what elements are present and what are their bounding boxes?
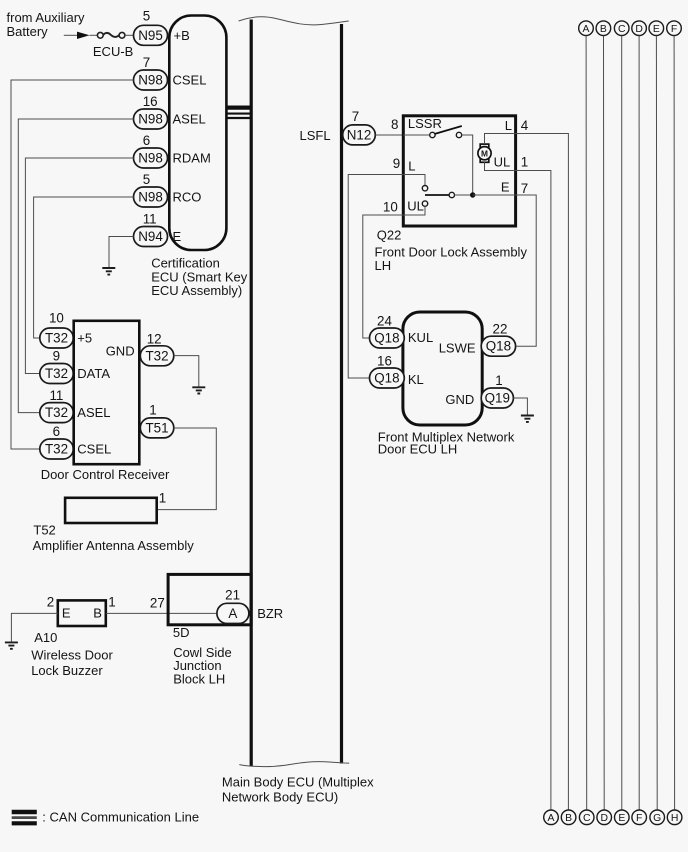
node A (top) — [579, 21, 594, 36]
svg-text:E: E — [501, 180, 510, 195]
connector N12 — [343, 125, 376, 145]
svg-text:A: A — [228, 606, 237, 621]
svg-text:N12: N12 — [347, 127, 372, 142]
svg-text:Battery: Battery — [7, 24, 49, 39]
svg-text:C: C — [583, 813, 591, 824]
wire: motor top to L pin 4 — [485, 134, 516, 145]
svg-text:BZR: BZR — [257, 606, 283, 621]
svg-text:B: B — [565, 813, 572, 824]
wire: Q22 E pin 7 to Q18 LSWE — [516, 195, 537, 346]
svg-text:GND: GND — [106, 343, 135, 358]
svg-text:11: 11 — [143, 212, 157, 227]
svg-text:F: F — [636, 813, 642, 824]
svg-text:11: 11 — [49, 388, 63, 403]
wire: top A to bottom C — [585, 36, 588, 810]
connector Q19 — [481, 388, 513, 408]
wire: motor bottom to UL pin 1 — [485, 162, 516, 170]
svg-text:B: B — [93, 606, 102, 621]
wire: N94 E to ground — [109, 237, 134, 268]
svg-text:RDAM: RDAM — [173, 151, 211, 166]
wire: L pin 9 feed inside Q22 — [403, 175, 425, 186]
label: 5D Cowl Side Junction Block LH — [173, 625, 232, 686]
wire: Q22 pin 9 L to Q18 KL — [348, 175, 403, 379]
svg-text:D: D — [635, 24, 643, 35]
wire: N98 ASEL to T32 ASEL — [18, 119, 133, 413]
svg-text:1: 1 — [149, 403, 156, 418]
svg-text:E: E — [62, 606, 71, 621]
svg-text:12: 12 — [147, 332, 162, 347]
node E (top) — [649, 21, 664, 36]
CAN communication line stub (Certification ECU to Main Body ECU) — [226, 108, 251, 118]
legend symbol: CAN communication line — [12, 812, 37, 823]
svg-text:LSSR: LSSR — [408, 116, 442, 131]
svg-text:T32: T32 — [145, 348, 168, 363]
svg-text:T32: T32 — [45, 366, 68, 381]
connector Q18 (KL) — [370, 368, 405, 388]
ECU: Door Control Receiver body — [74, 321, 140, 464]
svg-text:GND: GND — [445, 392, 474, 407]
switch contact (L fixed) — [422, 186, 427, 191]
node B (top) — [596, 21, 611, 36]
switch blade (lock/unlock common) — [425, 194, 449, 196]
svg-text:LSFL: LSFL — [300, 128, 331, 143]
svg-text:T51: T51 — [145, 421, 168, 436]
svg-text:N98: N98 — [138, 73, 163, 88]
svg-text:22: 22 — [493, 322, 508, 337]
svg-text:Amplifier Antenna Assembly: Amplifier Antenna Assembly — [33, 538, 195, 553]
svg-text:T32: T32 — [45, 442, 68, 457]
svg-text:T32: T32 — [45, 405, 68, 420]
node D (top) — [632, 21, 647, 36]
svg-text:21: 21 — [225, 587, 240, 602]
wire: UL pin 10 feed inside Q22 — [403, 206, 425, 215]
wire: A10 E to ground — [11, 613, 57, 641]
node C (top) — [614, 21, 629, 36]
svg-text:6: 6 — [143, 133, 150, 148]
component A10: Wireless Door Lock Buzzer body — [58, 600, 106, 626]
wire: N98 CSEL to T32 CSEL — [11, 80, 134, 449]
wire: fuse to connector N95 — [125, 34, 134, 36]
ECU: Main Body ECU top break (wavy) — [239, 17, 349, 25]
node: from Auxiliary Battery label — [7, 10, 86, 39]
label: Certification ECU (Smart Key ECU Assembly) — [151, 256, 248, 299]
switch contact (UL fixed) — [422, 201, 427, 206]
ECU: Main Body ECU left edge — [250, 20, 253, 767]
ECU: Main Body ECU bottom break (wavy) — [239, 762, 349, 767]
svg-text:A10: A10 — [34, 630, 57, 645]
component Q22: Front Door Lock Assembly LH body — [403, 116, 515, 226]
wire: LSSR contact to junction — [462, 135, 473, 195]
svg-text:10: 10 — [49, 311, 64, 326]
connector N95 — [134, 25, 168, 45]
svg-text:RCO: RCO — [173, 190, 202, 205]
svg-text:: CAN Communication Line: : CAN Communication Line — [42, 810, 199, 825]
wire: N98 RCO to T32 +5 — [34, 197, 134, 338]
svg-text:Q22: Q22 — [377, 228, 402, 243]
svg-text:Certification: Certification — [151, 256, 220, 271]
svg-text:C: C — [618, 24, 626, 35]
svg-text:8: 8 — [391, 117, 398, 132]
ECU: Certification ECU (Smart Key ECU Assembly) body — [169, 16, 226, 251]
svg-text:9: 9 — [53, 349, 60, 364]
svg-text:Q18: Q18 — [486, 339, 511, 354]
svg-text:16: 16 — [377, 353, 392, 368]
node F (bottom) — [632, 810, 647, 825]
wire: N98 RDAM to T32 DATA — [25, 158, 133, 374]
node E (bottom) — [615, 810, 630, 825]
connector T51 — [140, 418, 174, 438]
wire: arrow to fuse — [90, 34, 98, 36]
svg-text:E: E — [173, 229, 182, 244]
component T52: Amplifier Antenna Assembly body — [65, 498, 157, 523]
wire: LSSR feed inside Q22 — [403, 134, 429, 136]
connector N98 (RCO) — [134, 187, 168, 207]
label: Main Body ECU (Multiplex Network Body ECU) — [222, 775, 374, 805]
connector A (inside junction block) — [217, 603, 249, 623]
svg-text:N98: N98 — [138, 151, 163, 166]
svg-text:UL: UL — [407, 199, 424, 214]
svg-text:9: 9 — [393, 156, 400, 171]
svg-text:Network Body ECU): Network Body ECU) — [222, 790, 338, 805]
label: Front Multiplex Network Door ECU LH — [378, 430, 515, 457]
node B (bottom) — [561, 810, 576, 825]
svg-text:Door ECU LH: Door ECU LH — [378, 442, 457, 457]
svg-text:24: 24 — [377, 313, 392, 328]
svg-text:LSWE: LSWE — [439, 340, 476, 355]
connector T32 (DATA) — [40, 364, 74, 384]
wire: T51 to Amplifier Antenna Assembly — [157, 428, 217, 510]
label: Wireless Door Lock Buzzer — [31, 648, 113, 678]
junction dot (Q22 common) — [470, 192, 475, 197]
svg-text:ASEL: ASEL — [173, 112, 206, 127]
svg-text:A: A — [583, 24, 590, 35]
svg-text:ECU-B: ECU-B — [93, 44, 133, 59]
svg-text:1: 1 — [159, 490, 166, 505]
wire: top D to bottom F — [638, 36, 640, 810]
connector T32 (+5) — [40, 328, 74, 348]
label: Q22 Front Door Lock Assembly LH — [375, 228, 528, 273]
node D (bottom) — [597, 810, 612, 825]
svg-text:16: 16 — [143, 94, 158, 109]
svg-text:Main Body ECU (Multiplex: Main Body ECU (Multiplex — [222, 775, 374, 790]
svg-text:N98: N98 — [138, 190, 163, 205]
svg-text:ECU Assembly): ECU Assembly) — [151, 283, 242, 298]
node A (bottom) — [544, 810, 559, 825]
svg-text:1: 1 — [521, 155, 528, 170]
svg-text:Lock Buzzer: Lock Buzzer — [31, 663, 103, 678]
wire: T32 GND to ground — [174, 356, 199, 387]
svg-text:27: 27 — [150, 596, 165, 611]
wire: junction to E pin 7 — [473, 194, 516, 196]
wire: Q22 L pin 4 to bottom node B — [516, 134, 569, 811]
svg-text:CSEL: CSEL — [77, 442, 111, 457]
junction block 5D: Cowl Side Junction Block LH body — [168, 574, 251, 624]
wire: battery feed to fuse — [64, 34, 78, 36]
svg-text:+B: +B — [174, 28, 190, 43]
svg-text:L: L — [408, 158, 415, 173]
svg-text:E: E — [653, 24, 660, 35]
svg-text:G: G — [653, 813, 661, 824]
svg-text:10: 10 — [383, 200, 398, 215]
svg-text:4: 4 — [521, 118, 529, 133]
ground: Wireless Door Lock Buzzer — [5, 642, 18, 648]
svg-text:N95: N95 — [138, 28, 163, 43]
svg-text:1: 1 — [495, 373, 502, 388]
svg-text:Q18: Q18 — [374, 331, 399, 346]
switch blade (LSSR) — [434, 126, 461, 134]
node C (bottom) — [579, 810, 594, 825]
svg-text:+5: +5 — [77, 331, 92, 346]
svg-text:UL: UL — [494, 154, 511, 169]
connector N94 (E) — [134, 227, 168, 247]
ground: Door Control Receiver GND — [192, 387, 205, 393]
arrow: power feed direction — [77, 32, 90, 39]
svg-text:5: 5 — [143, 172, 150, 187]
svg-text:B: B — [600, 24, 607, 35]
svg-text:7: 7 — [521, 181, 528, 196]
svg-text:5D: 5D — [173, 625, 190, 640]
svg-text:A: A — [548, 813, 555, 824]
switch contact (LSSR right) — [456, 132, 461, 137]
connector Q18 (KUL) — [370, 328, 405, 348]
wire: A10 B to Cowl Side Junction Block pin 27 and internal A — [106, 612, 217, 614]
ECU: Front Multiplex Network Door ECU LH body — [403, 312, 482, 425]
wire: Q19 to ground — [513, 398, 527, 415]
node G (bottom) — [650, 810, 665, 825]
svg-text:M: M — [481, 148, 488, 158]
node F (top) — [667, 21, 682, 36]
svg-text:5: 5 — [143, 8, 150, 23]
motor M (door lock motor) — [478, 144, 491, 162]
connector Q18 (LSWE) — [481, 336, 515, 356]
wire: top C to bottom E — [621, 36, 623, 810]
svg-text:DATA: DATA — [77, 366, 110, 381]
connector N98 (CSEL) — [134, 70, 168, 90]
svg-text:LH: LH — [375, 258, 392, 273]
svg-text:H: H — [671, 813, 679, 824]
wire: N12 to Q22 LSSR — [375, 134, 403, 136]
svg-text:KUL: KUL — [408, 330, 433, 345]
svg-text:N98: N98 — [138, 112, 163, 127]
connector N98 (ASEL) — [134, 109, 168, 129]
svg-text:7: 7 — [143, 55, 150, 70]
switch contact (LSSR left) — [430, 132, 435, 137]
svg-text:6: 6 — [53, 424, 60, 439]
node H (bottom) — [667, 810, 682, 825]
svg-text:2: 2 — [47, 595, 54, 610]
svg-text:1: 1 — [108, 595, 115, 610]
svg-text:T32: T32 — [45, 331, 68, 346]
svg-text:Block LH: Block LH — [173, 672, 225, 687]
svg-text:from Auxiliary: from Auxiliary — [7, 10, 86, 25]
wire: top E to bottom G — [655, 36, 658, 810]
svg-text:Q19: Q19 — [485, 391, 510, 406]
connector N98 (RDAM) — [134, 148, 168, 168]
connector T32 (GND) — [140, 346, 174, 366]
svg-text:T52: T52 — [33, 522, 55, 537]
svg-text:Wireless Door: Wireless Door — [31, 648, 113, 663]
ground: Front Multiplex Network Door ECU — [521, 416, 534, 422]
svg-text:7: 7 — [352, 109, 359, 124]
svg-text:F: F — [671, 24, 677, 35]
svg-text:KL: KL — [408, 372, 424, 387]
svg-text:D: D — [600, 813, 608, 824]
svg-text:Front Door Lock Assembly: Front Door Lock Assembly — [375, 245, 528, 260]
svg-text:Door Control Receiver: Door Control Receiver — [41, 467, 170, 482]
svg-text:CSEL: CSEL — [173, 73, 207, 88]
svg-text:E: E — [618, 813, 625, 824]
wire: top B to bottom D — [603, 36, 606, 810]
connector T32 (CSEL) — [40, 439, 74, 459]
ground: Certification ECU E — [102, 268, 115, 275]
wire: Q22 pin 10 UL to Q18 KUL — [363, 215, 404, 338]
ECU: Main Body ECU right edge — [340, 24, 343, 764]
switch contact (common right) — [449, 192, 454, 197]
svg-text:ASEL: ASEL — [77, 405, 110, 420]
wire: common contact to junction — [455, 194, 471, 196]
svg-text:L: L — [505, 118, 512, 133]
connector T32 (ASEL) — [40, 403, 74, 423]
svg-text:Q18: Q18 — [374, 371, 399, 386]
wire: top F to bottom H — [673, 36, 676, 810]
wire: Q22 UL pin 1 to bottom node A — [516, 171, 551, 811]
svg-text:N94: N94 — [138, 229, 163, 244]
fuse ECU-B — [97, 32, 125, 38]
